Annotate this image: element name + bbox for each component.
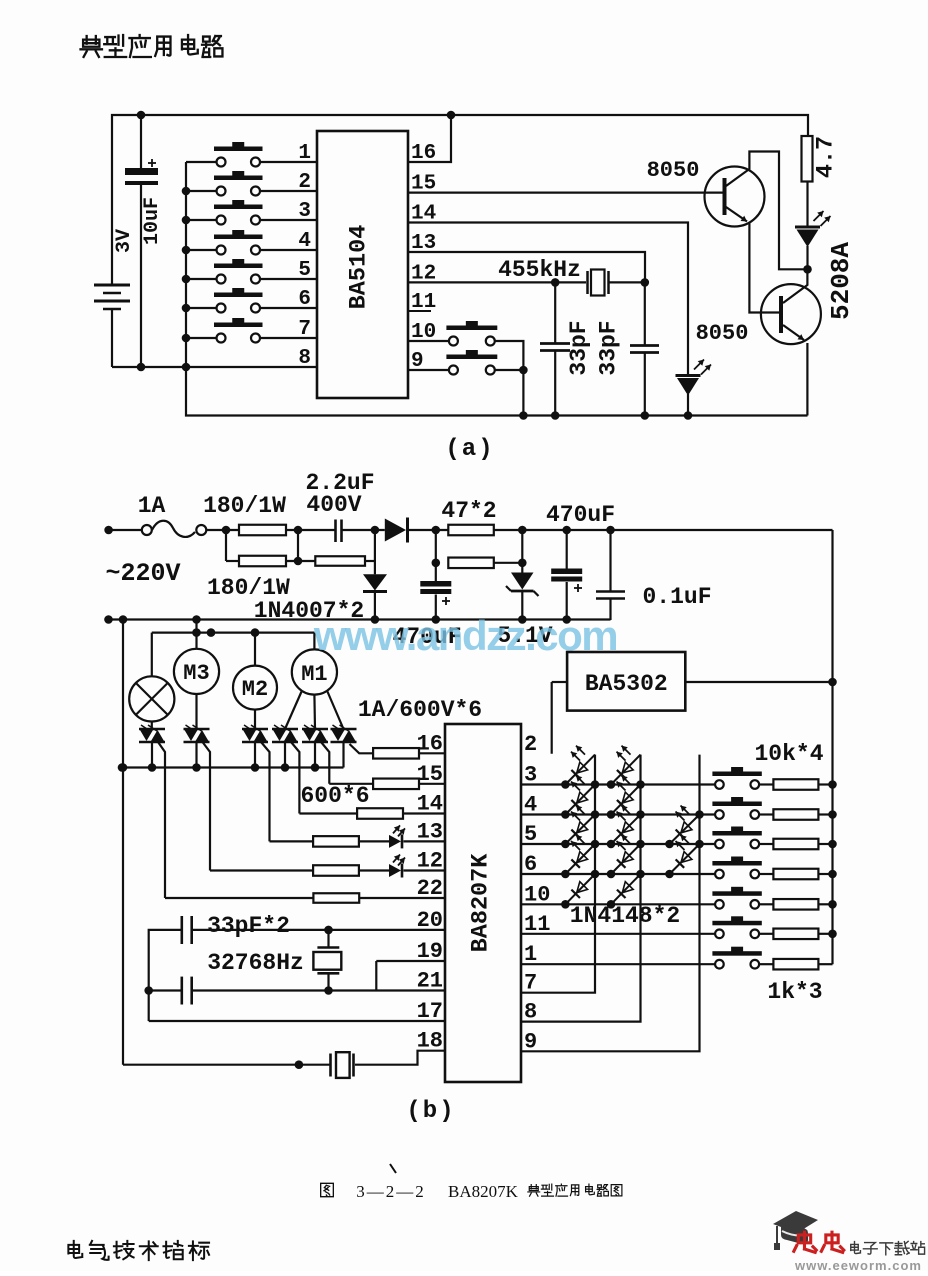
svg-text:4: 4	[298, 230, 311, 253]
svg-text:33pF: 33pF	[566, 320, 592, 375]
svg-text:www.andzz.com: www.andzz.com	[313, 612, 617, 659]
svg-text:22: 22	[417, 876, 443, 901]
svg-text:(b): (b)	[406, 1098, 455, 1125]
svg-text:10k*4: 10k*4	[754, 741, 823, 767]
svg-text:600*6: 600*6	[300, 783, 369, 809]
svg-text:3: 3	[298, 200, 311, 223]
svg-text:15: 15	[417, 762, 443, 787]
svg-text:455kHz: 455kHz	[498, 257, 581, 283]
svg-text:3V: 3V	[113, 229, 136, 253]
svg-text:BA8207K: BA8207K	[448, 1182, 519, 1201]
svg-text:1: 1	[298, 142, 311, 165]
svg-text:12: 12	[417, 849, 443, 874]
svg-text:180/1W: 180/1W	[203, 493, 286, 519]
svg-text:1A: 1A	[138, 493, 166, 519]
svg-text:M1: M1	[301, 662, 327, 687]
svg-text:8050: 8050	[696, 321, 749, 346]
svg-text:33pF: 33pF	[596, 320, 622, 375]
svg-text:47*2: 47*2	[441, 498, 496, 524]
svg-text:14: 14	[417, 792, 443, 817]
svg-text:2: 2	[298, 171, 311, 194]
svg-text:0.1uF: 0.1uF	[642, 584, 711, 610]
svg-text:8050: 8050	[647, 158, 700, 183]
svg-text:(a): (a)	[445, 436, 494, 463]
svg-text:8: 8	[298, 347, 311, 370]
svg-text:www.eeworm.com: www.eeworm.com	[794, 1258, 922, 1271]
svg-text:M2: M2	[242, 677, 268, 702]
svg-text:400V: 400V	[306, 492, 361, 518]
svg-text:2: 2	[524, 732, 537, 757]
svg-text:16: 16	[417, 731, 443, 756]
svg-text:7: 7	[298, 318, 311, 341]
svg-text:BA5302: BA5302	[585, 671, 668, 697]
svg-text:1k*3: 1k*3	[767, 979, 822, 1005]
svg-text:M3: M3	[183, 661, 209, 686]
svg-text:5: 5	[298, 259, 311, 282]
svg-text:13: 13	[417, 819, 443, 844]
svg-text:32768Hz: 32768Hz	[207, 950, 304, 976]
svg-text:6: 6	[298, 288, 311, 311]
svg-text:~220V: ~220V	[105, 559, 180, 588]
svg-text:1N4148*2: 1N4148*2	[570, 903, 680, 929]
svg-text:4.7: 4.7	[813, 136, 840, 178]
svg-text:470uF: 470uF	[546, 502, 615, 528]
svg-text:BA8207K: BA8207K	[468, 853, 495, 953]
svg-text:5208A: 5208A	[826, 242, 856, 320]
svg-text:10uF: 10uF	[141, 197, 164, 245]
svg-text:33pF*2: 33pF*2	[207, 913, 290, 939]
svg-text:BA5104: BA5104	[346, 225, 373, 310]
svg-text:1A/600V*6: 1A/600V*6	[358, 697, 482, 723]
svg-text:3—2—2: 3—2—2	[356, 1182, 426, 1201]
